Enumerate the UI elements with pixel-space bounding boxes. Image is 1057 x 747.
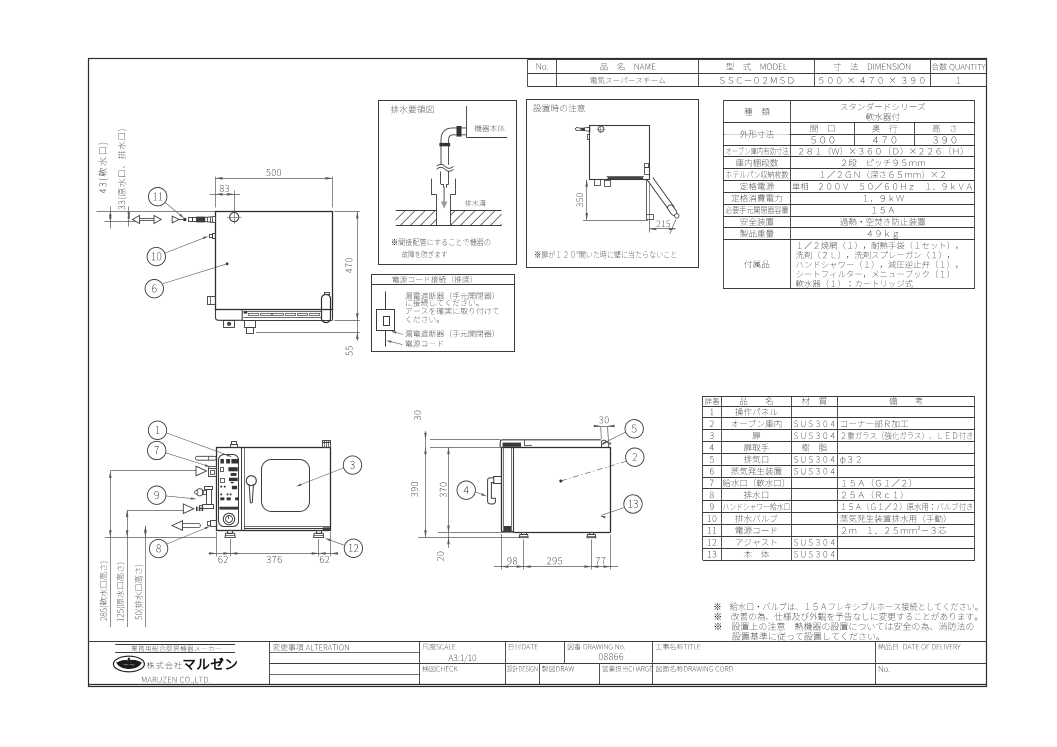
panel row6 buttons — [220, 497, 224, 500]
header table grid — [528, 59, 987, 61]
soft water inlet arrow — [110, 470, 196, 472]
power cord box title line — [371, 284, 515, 286]
drain pipe elbow — [441, 128, 466, 165]
cord leader — [388, 341, 403, 345]
power text line2 — [406, 299, 479, 306]
front view body — [217, 448, 331, 531]
side front foot — [522, 533, 527, 535]
soft water inlet fitting — [209, 469, 217, 477]
notice open door — [647, 180, 669, 210]
dim 390 — [411, 482, 418, 497]
panel row3 display — [221, 479, 225, 483]
power text line1 — [405, 292, 494, 299]
balloon 11 — [149, 188, 167, 206]
dim 370 — [448, 447, 450, 548]
machine body label — [475, 125, 505, 132]
leader 1 — [166, 433, 230, 456]
parts table rows — [710, 409, 713, 415]
leader 11 — [165, 202, 183, 217]
dim 77 — [596, 557, 605, 564]
top view left foot — [224, 321, 235, 328]
breaker symbol — [385, 292, 387, 310]
parts table header — [705, 398, 720, 405]
dim 285 soft water height — [110, 471, 112, 627]
door window — [262, 460, 310, 512]
balloon 8 — [149, 539, 167, 557]
top view front face — [242, 320, 332, 322]
drain pipe lower section — [440, 172, 442, 185]
dim 30 exhaust offset — [596, 426, 613, 428]
leader 7 — [166, 453, 209, 467]
front left foot — [228, 531, 233, 534]
floor bottom line — [396, 225, 502, 227]
notice right bracket — [645, 168, 650, 175]
dim 33 raw water / drain — [128, 207, 130, 227]
leader 12 — [326, 539, 344, 546]
balloon 2 — [626, 448, 644, 466]
side view top plate — [500, 440, 601, 447]
power cord connector — [189, 218, 193, 222]
drain note line2 — [402, 251, 447, 258]
spec table accessories — [798, 241, 958, 249]
header table labels — [537, 63, 548, 69]
side view body top — [501, 447, 610, 449]
balloon 1 — [148, 421, 166, 439]
top view door slot strip — [244, 311, 322, 313]
dim 30 cap height — [425, 431, 427, 537]
floor hatching — [390, 211, 405, 226]
balloon 9 — [148, 486, 166, 504]
maruzen english name — [142, 677, 210, 684]
notice dim 350 — [583, 220, 648, 222]
breaker leader — [393, 332, 404, 335]
notice cord plug — [585, 127, 590, 131]
drain guide box — [379, 101, 517, 265]
drain pipe break waves — [437, 164, 454, 168]
drain funnel — [431, 179, 433, 195]
drain flow arrow — [441, 187, 448, 209]
floor line — [396, 210, 437, 212]
leader 6 — [163, 264, 227, 284]
balloon 3 — [343, 456, 361, 474]
maruzen company name — [147, 662, 182, 669]
leader 13 — [601, 508, 624, 516]
side bottom extension lines — [501, 534, 503, 570]
balloon 12 — [344, 539, 362, 557]
leader 3 — [298, 468, 344, 486]
notice door pivot line — [646, 180, 648, 214]
side bottom dim line — [494, 566, 618, 568]
power cord box — [372, 275, 515, 352]
side view body outline — [610, 447, 612, 532]
top view exhaust port circle — [230, 213, 239, 222]
leader 10 — [165, 237, 207, 253]
breaker label — [405, 330, 494, 337]
top view center foot — [245, 321, 256, 328]
drain pipe coupling at machine — [457, 126, 462, 137]
power text line4 — [407, 316, 439, 323]
machine body wall — [466, 106, 468, 137]
leader 4 — [475, 492, 485, 496]
dim 50 drain height — [145, 526, 147, 628]
dim 43 soft water inlet — [97, 211, 216, 213]
drain pipe coupling ring — [439, 143, 450, 146]
top view interior node dot — [226, 262, 229, 265]
drain note line1 — [392, 238, 490, 245]
power text line3 — [406, 307, 499, 314]
dim 62 left — [218, 556, 227, 563]
leader 2 dash-dot — [561, 461, 627, 481]
top view water inlet fitting — [213, 234, 216, 239]
side left extension lines — [430, 439, 500, 441]
drain outlet fitting — [211, 521, 217, 527]
top view door handle — [322, 295, 331, 323]
balloon 7 — [148, 441, 166, 459]
panel row1 buttons — [220, 459, 224, 464]
leader 8 — [167, 527, 209, 544]
front exhaust stack — [232, 442, 237, 445]
balloon 10 — [147, 247, 165, 265]
hand shower arrow — [127, 510, 183, 512]
top view left step box — [216, 310, 243, 321]
drain gutter label — [465, 200, 486, 206]
dim 470 — [334, 211, 359, 213]
spec table labels — [744, 108, 769, 116]
drawing frame — [89, 59, 987, 687]
dim 98 — [508, 557, 517, 564]
title block grid — [88, 641, 987, 643]
side rear foot — [590, 533, 594, 535]
installation notice box — [527, 100, 699, 268]
header table values — [590, 77, 665, 84]
panel row4 — [220, 486, 222, 488]
leader 5 — [607, 432, 625, 441]
hand shower coupling — [196, 507, 198, 511]
top view body — [216, 212, 333, 310]
dim 125 raw water height — [127, 510, 129, 627]
dim 295 — [547, 557, 562, 564]
notice dim 215 — [649, 182, 651, 233]
notice note text — [535, 251, 676, 259]
panel row2 display — [221, 468, 224, 472]
panel knob — [223, 513, 234, 524]
dim 83 — [234, 191, 236, 213]
door handle front — [246, 476, 256, 486]
power cord plug — [205, 216, 216, 222]
drain outlet arrow — [181, 524, 201, 528]
side view top plate dark band — [503, 443, 521, 447]
notice left fitting — [588, 135, 590, 140]
dim 500 — [215, 177, 217, 208]
front bottom dim line — [209, 553, 339, 555]
side view door bottom seal — [504, 526, 511, 531]
control panel — [219, 455, 239, 527]
installation notice title — [533, 104, 585, 112]
notice feet — [595, 180, 601, 186]
power cord extension arrow — [172, 216, 179, 223]
parts table grid — [703, 396, 975, 398]
spec table values — [841, 103, 925, 111]
side view door lines — [501, 447, 503, 532]
power cord box title — [392, 276, 471, 283]
notice exhaust circle — [598, 126, 604, 132]
dim 20 foot height — [437, 552, 444, 561]
balloon 6 — [145, 280, 163, 298]
spec table grid — [723, 100, 975, 102]
drain guide title — [391, 105, 433, 113]
steam generator pipe stub — [196, 456, 217, 460]
hand shower valve — [205, 487, 213, 490]
front right foot — [317, 531, 322, 534]
door bottom rail — [244, 526, 331, 528]
maker catchphrase — [115, 644, 235, 646]
door divider lines — [241, 447, 243, 531]
front bottom dims extension lines — [216, 532, 218, 557]
dim 62 right — [320, 556, 329, 563]
cord label — [406, 340, 444, 347]
balloon 13 — [624, 495, 642, 513]
notes — [715, 602, 978, 610]
balloon 5 — [625, 420, 643, 438]
spec table sub columns — [854, 123, 856, 146]
dim 55 — [256, 332, 360, 334]
leader 9 — [166, 496, 195, 499]
side view exhaust notch — [602, 440, 609, 447]
dim 376 — [267, 556, 282, 563]
bottom right dark box — [323, 527, 331, 530]
notice door slot strip — [607, 176, 644, 178]
balloon 4 — [457, 481, 475, 499]
maruzen logo mark — [113, 656, 144, 672]
notice machine body — [590, 126, 650, 180]
top view drain valve protrusion — [208, 297, 216, 305]
side view door handle — [494, 477, 502, 484]
panel row5 dots — [220, 493, 222, 495]
front right vent box — [323, 441, 331, 448]
panel label bar — [219, 507, 238, 510]
front floor extension line — [105, 537, 216, 539]
title block labels — [273, 644, 349, 651]
